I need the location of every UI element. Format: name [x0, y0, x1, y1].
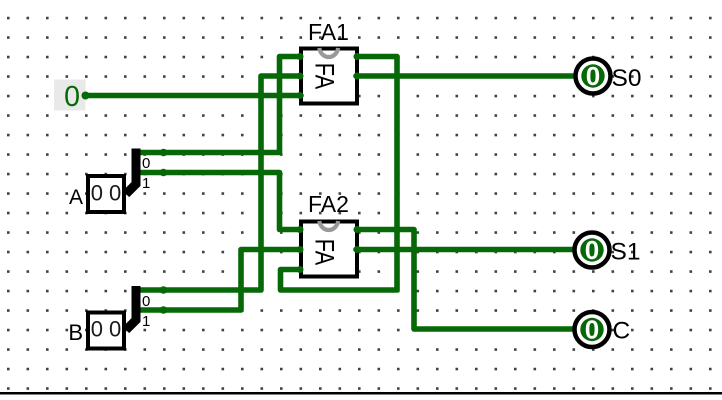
input pin B	[88, 313, 124, 349]
svg-text:1: 1	[142, 313, 150, 330]
wire: FA1 carry-out to FA2 carry-in	[281, 53, 398, 290]
svg-text:A: A	[69, 186, 83, 209]
svg-text:B: B	[68, 320, 83, 345]
wire: splitter A bit 1 to FA2 input	[136, 169, 304, 233]
svg-text:FA1: FA1	[308, 19, 349, 45]
constant 0	[54, 80, 86, 114]
svg-text:0 0: 0 0	[91, 181, 122, 206]
output pin S1	[575, 233, 610, 268]
wire: splitter A bit 0 to FA1 input	[136, 53, 304, 156]
wire: FA1 sum to output S0	[354, 73, 575, 80]
svg-text:0: 0	[585, 235, 599, 265]
splitter for input B	[126, 286, 136, 330]
output pin S0	[576, 59, 611, 94]
full adder FA1 (subcircuit box)	[301, 48, 357, 104]
svg-text:S1: S1	[611, 239, 641, 266]
svg-text:0 0: 0 0	[91, 317, 122, 342]
svg-text:FA2: FA2	[308, 191, 349, 217]
svg-text:0: 0	[586, 61, 600, 91]
wire: FA2 sum to output S1	[354, 246, 575, 253]
wire: splitter B bit 1 to FA2 input	[136, 246, 304, 314]
svg-text:FA: FA	[310, 63, 340, 90]
wire: constant 0 to FA1 carry-in	[82, 92, 304, 100]
splitter for input A	[126, 149, 136, 195]
full adder FA2 (subcircuit box)	[301, 221, 357, 277]
svg-text:1: 1	[142, 175, 150, 192]
svg-text:0: 0	[585, 315, 599, 345]
wire: FA2 carry-out to output C	[354, 226, 575, 329]
wire: splitter B bit 0 to FA1 input	[136, 73, 304, 294]
output pin C	[575, 312, 610, 347]
svg-text:S0: S0	[612, 65, 642, 92]
svg-text:0: 0	[64, 81, 80, 113]
svg-text:0: 0	[142, 293, 150, 310]
svg-text:C: C	[613, 318, 631, 345]
svg-text:0: 0	[142, 155, 150, 172]
svg-text:FA: FA	[310, 239, 340, 266]
input pin A	[88, 176, 124, 212]
